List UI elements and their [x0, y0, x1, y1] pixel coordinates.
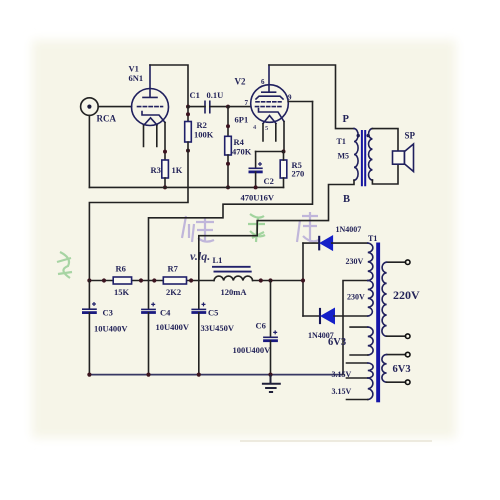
- wire V2 plate top run to OPT P: [269, 65, 354, 129]
- capacitor C3: [82, 281, 97, 375]
- V2 plate: [262, 65, 276, 92]
- terminal 6V3 top: [405, 352, 410, 357]
- capacitor C4: [141, 281, 156, 375]
- svg-text:1N4007: 1N4007: [336, 225, 362, 234]
- terminal 220V top: [405, 260, 410, 265]
- svg-text:0.1U: 0.1U: [207, 90, 224, 100]
- speaker SP: [393, 144, 414, 172]
- svg-text:C1: C1: [190, 90, 200, 100]
- svg-text:R3: R3: [151, 165, 161, 175]
- wire RCA down to ground bus: [88, 115, 90, 187]
- choke L1 winding: [214, 276, 253, 280]
- wire V2 cathode lead: [283, 122, 285, 152]
- svg-text:6V3: 6V3: [393, 364, 411, 375]
- node dot R6 right: [139, 278, 143, 282]
- wire R2 bottom feed from B+ node: [89, 142, 188, 281]
- watermark green squiggle left edge: [57, 252, 72, 278]
- node dot C5 ground: [197, 373, 201, 377]
- svg-text:P: P: [343, 114, 350, 125]
- V2 heater pin stubs: [263, 124, 276, 141]
- V2 suppressor grid: [256, 96, 283, 99]
- wire node B to V2 grid: [228, 106, 251, 108]
- svg-text:B: B: [343, 194, 350, 205]
- wire R5 top: [283, 152, 285, 161]
- node dot R6 left: [102, 278, 106, 282]
- node dot C6 B+: [268, 278, 272, 282]
- node dot rail B+ tap: [301, 278, 305, 282]
- wire screen feed staircase to C4 node: [149, 102, 313, 281]
- watermark green glyph center: [248, 214, 265, 242]
- resistor R4: [225, 136, 232, 155]
- wire V1 plate top run to node A: [150, 65, 188, 107]
- node dot above R4: [226, 124, 230, 128]
- svg-text:C3: C3: [103, 307, 113, 317]
- wire secondary top to speaker: [372, 129, 398, 151]
- wire node B down to R4: [227, 107, 229, 137]
- svg-text:3.15V: 3.15V: [332, 387, 352, 396]
- svg-text:220V: 220V: [393, 288, 420, 302]
- watermark purple glyph left: [182, 216, 214, 242]
- svg-text:10U400V: 10U400V: [156, 322, 190, 332]
- svg-text:RCA: RCA: [97, 114, 117, 124]
- wire cathode node: [256, 151, 284, 153]
- wire R5 bottom: [283, 178, 285, 187]
- resistor R5: [280, 160, 287, 178]
- ground symbol: [262, 375, 281, 392]
- transformer T1 output primary winding: [354, 129, 358, 181]
- svg-text:100K: 100K: [194, 129, 214, 139]
- svg-text:100U400V: 100U400V: [233, 345, 272, 355]
- T1 winding 6V3 right: [382, 355, 406, 383]
- svg-text:T1: T1: [368, 234, 377, 243]
- transformer T1 power core: [376, 243, 380, 403]
- node dot C6 ground: [268, 373, 272, 377]
- node dot C4 ground: [146, 373, 150, 377]
- V1 heater: [144, 118, 157, 125]
- ground bus input stage: [89, 186, 283, 188]
- wire node A to R2: [187, 107, 189, 122]
- svg-text:C5: C5: [208, 307, 218, 317]
- T1 HV winding upper 230V: [368, 243, 373, 280]
- V1 grid: [138, 106, 163, 108]
- capacitor C1: [205, 101, 210, 112]
- V2 control grid: [256, 106, 282, 108]
- svg-text:470K: 470K: [232, 147, 252, 157]
- svg-text:230V: 230V: [347, 293, 365, 302]
- resistor R2: [185, 122, 192, 143]
- node dot R4 ground: [226, 185, 230, 189]
- rectifier output rail: [302, 243, 304, 316]
- svg-text:R7: R7: [168, 264, 179, 274]
- V1 heater pin stubs: [144, 126, 157, 147]
- svg-text:T1: T1: [337, 137, 346, 146]
- node dot cathode R5: [282, 150, 286, 154]
- node dot C3 ground: [87, 373, 91, 377]
- node dot below R2: [186, 149, 190, 153]
- terminal 220V bottom: [405, 334, 410, 339]
- svg-text:SP: SP: [405, 131, 416, 141]
- svg-text:M5: M5: [338, 152, 350, 161]
- node dot cathode lead: [163, 150, 167, 154]
- phase dot secondary: [367, 134, 370, 137]
- svg-text:6: 6: [261, 78, 265, 86]
- B+ filter bus: [89, 280, 303, 282]
- node dot R7 left: [152, 278, 156, 282]
- wire secondary bottom to speaker: [372, 164, 398, 184]
- phase dot primary: [357, 134, 360, 137]
- tube V1 envelope: [132, 89, 169, 126]
- choke L1 core: [212, 267, 252, 272]
- wire C1 right to node B: [210, 106, 228, 108]
- capacitor C2: [249, 162, 263, 172]
- diode D1 1N4007: [303, 236, 368, 251]
- svg-text:33U450V: 33U450V: [201, 323, 235, 333]
- wire V1 cathode lead to R3: [164, 123, 166, 161]
- V2 screen grid: [256, 101, 281, 103]
- svg-text:9: 9: [288, 94, 292, 102]
- T1 HV winding lower 230V: [368, 281, 373, 317]
- node dot below R4: [226, 162, 230, 166]
- wire HV center tap to ground: [343, 281, 368, 375]
- node dot R3 ground: [163, 185, 167, 189]
- node B C1/R4/V2 grid junction: [226, 105, 230, 109]
- svg-text:230V: 230V: [346, 257, 364, 266]
- svg-text:15K: 15K: [114, 287, 130, 297]
- node A plate/C1/R2 junction: [186, 105, 190, 109]
- wire R4 bottom: [227, 155, 229, 187]
- diode D2 1N4007: [303, 308, 368, 324]
- svg-text:V2: V2: [235, 77, 246, 87]
- watermark purple glyph right: [297, 212, 319, 242]
- T1 primary winding 220V: [382, 262, 406, 336]
- svg-text:6N1: 6N1: [129, 73, 144, 83]
- svg-text:C6: C6: [256, 320, 266, 330]
- svg-text:2K2: 2K2: [166, 287, 181, 297]
- svg-text:1K: 1K: [172, 165, 183, 175]
- svg-text:L1: L1: [213, 255, 223, 265]
- tube V2 envelope: [251, 85, 289, 123]
- transformer T1 output secondary winding: [369, 129, 373, 181]
- wire R3 bottom: [164, 178, 166, 187]
- T1 heater winding 3.15V lower: [347, 378, 373, 400]
- wire RCA to V1 grid: [98, 106, 131, 108]
- node dot C3 B+: [87, 278, 91, 282]
- wire V2 screen to feed: [288, 101, 312, 103]
- svg-text:6V3: 6V3: [328, 337, 346, 348]
- resistor R7: [163, 277, 186, 284]
- svg-text:R6: R6: [116, 264, 126, 274]
- T1 heater winding 3.15V upper: [347, 363, 374, 378]
- V1 plate: [143, 65, 157, 97]
- wire OPT B lead to C5 node: [199, 180, 354, 280]
- svg-text:6P1: 6P1: [235, 115, 249, 125]
- terminal 6V3 bottom: [405, 380, 410, 385]
- svg-text:C2: C2: [264, 176, 274, 186]
- svg-text:120mA: 120mA: [221, 287, 248, 297]
- resistor R6: [113, 277, 131, 284]
- svg-text:7: 7: [245, 99, 249, 107]
- wire C2 bottom lead: [255, 172, 257, 187]
- svg-text:R4: R4: [234, 137, 245, 147]
- svg-text:270: 270: [292, 169, 305, 179]
- T1 heater winding 6V3 left: [350, 327, 373, 355]
- node dot R7 right: [189, 278, 193, 282]
- V1 cathode: [142, 112, 165, 123]
- capacitor C5: [191, 281, 206, 375]
- wire C1 left: [188, 106, 205, 108]
- svg-text:3.15V: 3.15V: [332, 370, 352, 379]
- power ground bus: [89, 374, 343, 376]
- node dot C2 ground: [254, 185, 258, 189]
- RCA input jack: [81, 98, 99, 116]
- svg-text:470U16V: 470U16V: [241, 192, 275, 202]
- node dot above R2: [186, 112, 190, 116]
- transformer T1 output core: [362, 130, 365, 186]
- node dot before C6: [259, 278, 263, 282]
- svg-text:C4: C4: [160, 307, 171, 317]
- svg-text:10U400V: 10U400V: [94, 323, 128, 333]
- V2 cathode: [259, 109, 285, 122]
- svg-text:v.lq.: v.lq.: [190, 249, 210, 263]
- wire C2 top lead: [255, 152, 257, 169]
- resistor R3: [162, 160, 169, 178]
- capacitor C6: [263, 281, 278, 375]
- V2 heater: [263, 116, 276, 124]
